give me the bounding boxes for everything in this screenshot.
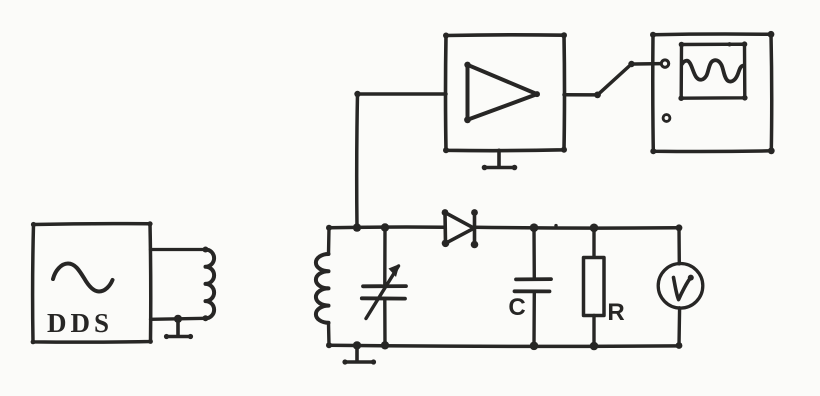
svg-text:C: C	[508, 294, 525, 321]
node: tank top junction to amplifier	[353, 223, 361, 231]
junction dot on DDS return wire	[174, 315, 182, 323]
resistor R body	[584, 258, 605, 316]
capacitor C top lead	[532, 228, 536, 279]
waveform trace on screen	[682, 60, 744, 81]
bottom rail wire	[329, 345, 679, 346]
voltmeter V top lead	[677, 228, 681, 264]
voltmeter V body	[658, 264, 703, 309]
ground symbol (amplifier)	[484, 150, 515, 167]
top rail wire diode to voltmeter	[475, 226, 680, 230]
scope input terminal	[661, 60, 668, 67]
tank top wire	[329, 225, 445, 229]
variable capacitor C1 top lead	[383, 228, 387, 286]
oscilloscope screen	[681, 44, 745, 98]
diode D1	[445, 213, 474, 244]
capacitor C plates	[515, 279, 552, 291]
sine symbol inside DDS	[53, 264, 113, 292]
node: resistor R top	[590, 224, 599, 233]
ground symbol (DDS side)	[166, 319, 191, 337]
capacitor C bottom lead	[532, 292, 536, 346]
resistor R top lead	[592, 228, 595, 257]
coupling coil L1	[206, 250, 215, 319]
variable capacitor C1 bottom lead	[383, 299, 387, 345]
variable capacitor C1 plates	[362, 286, 406, 299]
diode cathode bar	[473, 213, 477, 245]
wire coupling coil bottom back to DDS	[151, 318, 206, 319]
resistor R bottom lead	[592, 316, 595, 347]
node: variable capacitor top junction	[381, 223, 389, 231]
svg-text:R: R	[607, 299, 624, 326]
variable capacitor arrow	[366, 266, 399, 319]
wire amplifier output to oscilloscope	[564, 64, 661, 95]
DDS generator box U1	[33, 224, 151, 343]
scope second terminal	[663, 115, 670, 122]
DDS box corner dots	[31, 222, 36, 227]
ground symbol (tank)	[345, 345, 375, 362]
node: capacitor C top	[530, 223, 539, 232]
svg-text:DDS: DDS	[47, 308, 113, 338]
node: capacitor C bottom	[530, 342, 539, 351]
wire up to amplifier input	[357, 94, 446, 228]
wire DDS top output to coupling coil	[151, 248, 206, 251]
tank coil L2 (left leg of tank)	[327, 228, 331, 255]
tank bottom wire junction dots	[353, 341, 361, 349]
amplifier box U2	[446, 35, 565, 151]
label V	[674, 278, 691, 300]
voltmeter V bottom lead	[677, 308, 681, 346]
oscilloscope box	[653, 34, 772, 151]
amplifier triangle	[468, 65, 538, 120]
